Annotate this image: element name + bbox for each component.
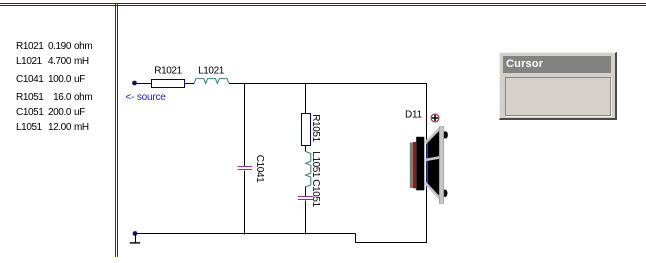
wire bottom rail left: [135, 233, 356, 235]
pane divider vertical line 1: [115, 4, 116, 257]
pane border top line 2: [0, 5, 646, 6]
speaker D11 magnet gray back plate: [410, 143, 413, 189]
speaker D11 magnet red ring: [413, 142, 416, 188]
resistor R1051: [301, 113, 311, 146]
ground stem: [135, 234, 137, 243]
parts list row R1051 value label: [16, 92, 43, 103]
parts list row R1021 value label: [16, 41, 43, 52]
svg-text:C1041: C1041: [254, 155, 265, 183]
svg-text:D11: D11: [405, 109, 423, 120]
svg-text:R1051: R1051: [310, 114, 321, 142]
Cursor window: [499, 52, 617, 120]
wire R1021 to L1021: [185, 83, 195, 85]
svg-text:L1051: L1051: [310, 151, 321, 178]
wire bottom rail right: [356, 242, 428, 244]
capacitor C1041: [238, 166, 253, 168]
parts list row L1021 value label: [16, 56, 42, 67]
capacitor C1051: [298, 196, 313, 198]
svg-text:L1021: L1021: [198, 66, 225, 77]
resistor R1021: [151, 79, 185, 88]
node source dot: [132, 81, 137, 86]
wire L1051 to C1051: [305, 187, 307, 197]
wire speaker stem (navy): [426, 139, 428, 190]
speaker D11 basket top strip: [425, 128, 440, 143]
ground bar: [130, 242, 140, 244]
wire C1051 branch lower: [305, 200, 307, 234]
parts list row C1051 value label: [16, 107, 43, 118]
pane divider vertical line 2: [117, 4, 118, 257]
Cursor window title bar: [503, 56, 611, 73]
speaker D11 magnet black pole: [416, 137, 424, 191]
speaker D11 basket bottom strip: [425, 183, 440, 199]
speaker D11 basket middle strut: [425, 157, 440, 160]
svg-text:<- source: <- source: [126, 92, 167, 103]
parts list row C1041 value label: [16, 74, 43, 85]
wire R1051 to L1051: [305, 146, 307, 152]
Cursor window content panel: [505, 77, 611, 116]
speaker D11 lower mounting knob: [443, 190, 448, 197]
speaker plus terminal circle: [431, 114, 439, 122]
wire bottom jog vertical: [355, 234, 357, 243]
speaker D11 upper mounting knob: [443, 131, 448, 138]
wire source to R1021: [135, 83, 152, 85]
wire R1051 branch upper: [305, 83, 307, 114]
parts list row L1051 value label: [16, 122, 42, 133]
ground node dot: [133, 231, 138, 236]
wire top rail L1021 to right corner: [229, 83, 427, 85]
svg-text:C1051: C1051: [310, 179, 321, 207]
wire speaker vertical lower: [426, 190, 428, 243]
pane border top line 1: [0, 3, 646, 4]
speaker D11 cone black: [427, 129, 440, 198]
wire speaker vertical upper: [426, 83, 428, 139]
wire C1041 branch upper: [244, 83, 246, 166]
speaker D11 rim bar: [439, 127, 444, 204]
svg-text:R1021: R1021: [154, 66, 182, 77]
speaker plus terminal cross: [432, 115, 438, 121]
inductor L1021: [194, 79, 229, 84]
inductor L1051: [306, 152, 311, 187]
wire C1041 branch lower: [244, 170, 246, 234]
